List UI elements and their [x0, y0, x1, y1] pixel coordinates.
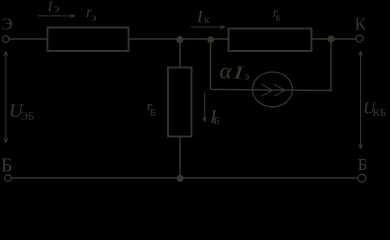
- svg-text:Б: Б: [1, 155, 12, 177]
- svg-text:I: I: [231, 63, 245, 83]
- svg-text:э: э: [54, 1, 59, 15]
- svg-text:α: α: [220, 59, 233, 84]
- svg-text:к: к: [276, 12, 282, 24]
- svg-text:Б: Б: [358, 155, 368, 174]
- svg-text:к: к: [204, 12, 210, 26]
- svg-text:Б: Б: [214, 115, 220, 127]
- svg-text:Б: Б: [150, 107, 156, 119]
- svg-text:КБ: КБ: [373, 107, 387, 119]
- svg-text:Э: Э: [2, 15, 13, 34]
- svg-text:I: I: [47, 0, 54, 15]
- svg-text:ЭБ: ЭБ: [21, 111, 35, 123]
- svg-text:К: К: [355, 15, 367, 34]
- svg-text:э: э: [91, 10, 96, 24]
- svg-text:э: э: [244, 69, 249, 83]
